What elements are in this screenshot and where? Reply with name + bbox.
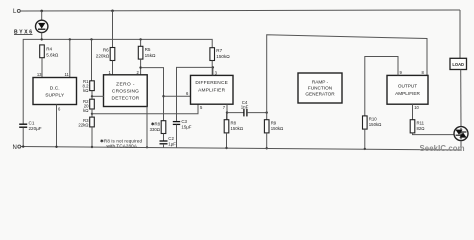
wire C4 node up and across to output pin 8 — [267, 35, 427, 113]
resistor R7 150k — [210, 48, 230, 76]
svg-text:R7: R7 — [216, 48, 222, 53]
wire R1 to R2 — [91, 91, 93, 100]
node R5 / wire to pin6 branch — [139, 66, 141, 68]
svg-text:SeekIC.com: SeekIC.com — [420, 144, 465, 153]
svg-text:11: 11 — [64, 72, 69, 77]
svg-text:150kΩ: 150kΩ — [271, 126, 284, 131]
svg-text:DETECTOR: DETECTOR — [112, 96, 140, 102]
svg-text:220kΩ: 220kΩ — [96, 53, 110, 58]
wire R11 to triac gate — [413, 133, 455, 135]
svg-text:1nF: 1nF — [241, 105, 249, 110]
wire R8s to C2 — [163, 134, 165, 141]
box U3 DIFFERENCE AMPLIFIER — [191, 75, 234, 104]
pin 7 + wire down — [226, 104, 228, 120]
pin 10 wire — [412, 104, 414, 120]
wire pin7 node through C4 to R9 node — [227, 112, 244, 114]
resistor R1 8.2k — [83, 79, 95, 93]
svg-text:C2: C2 — [168, 136, 174, 141]
resistor R3 22k — [78, 117, 94, 128]
node C4/R9/feedback — [266, 111, 268, 113]
node top rail / diode junction — [40, 10, 43, 13]
wire diode to bus — [41, 33, 43, 40]
svg-text:150kΩ: 150kΩ — [369, 122, 382, 127]
svg-text:R4: R4 — [46, 46, 52, 51]
svg-text:22kΩ: 22kΩ — [78, 123, 89, 128]
wire ZCD ground to bottom rail — [146, 107, 148, 148]
svg-text:kΩ: kΩ — [83, 88, 89, 93]
svg-text:with TCA280A: with TCA280A — [107, 144, 137, 149]
resistor R11 82 — [410, 120, 425, 133]
svg-text:330Ω: 330Ω — [150, 127, 161, 132]
svg-text:SUPPLY: SUPPLY — [45, 92, 65, 98]
svg-text:N: N — [13, 145, 17, 151]
resistor R5 15k — [138, 39, 156, 74]
wire R3 to rail — [91, 127, 93, 147]
capacitor C4 1nF — [241, 100, 249, 117]
node pin7/C4/R8 — [226, 111, 228, 113]
svg-text:D.C.: D.C. — [50, 86, 60, 92]
box U5 OUTPUT AMPLIFIER — [387, 75, 428, 104]
wire R7 node to C3 branch — [177, 67, 213, 121]
diode D1 BYX6 — [14, 20, 48, 35]
node R7 / C3 branch — [212, 66, 214, 68]
wire R2-R3 node to diff amp pin 5 — [93, 104, 198, 114]
svg-text:150kΩ: 150kΩ — [216, 54, 230, 59]
wire right rail top — [459, 10, 461, 58]
wire rail to diode — [41, 11, 43, 20]
pin 6 + wire to rail — [56, 105, 58, 148]
wire top rail — [20, 10, 460, 11]
svg-text:kΩ: kΩ — [83, 108, 89, 113]
node bus/diode/R4 — [41, 38, 43, 40]
resistor R4 5.6k — [40, 45, 59, 58]
svg-text:FUNCTION: FUNCTION — [308, 86, 332, 91]
svg-text:AMPLIFIER: AMPLIFIER — [395, 91, 420, 96]
svg-text:✱R8: ✱R8 — [151, 122, 161, 127]
svg-text:OUTPUT: OUTPUT — [398, 84, 417, 89]
node top rail / R6 junction — [111, 10, 114, 13]
resistor R8 150k — [224, 113, 244, 150]
box LOAD — [450, 58, 467, 69]
pin 9 wire and R10 branch — [365, 57, 398, 116]
node bus/pin11 — [69, 38, 71, 40]
box U4 RAMP-FUNCTION GENERATOR — [298, 73, 342, 103]
wire dc bus — [23, 39, 212, 124]
node bus/R5 — [139, 38, 141, 40]
svg-text:82Ω: 82Ω — [417, 126, 426, 131]
wire to diff amp pin 6 — [164, 95, 191, 97]
svg-text:10: 10 — [414, 105, 419, 110]
svg-text:R9: R9 — [271, 120, 277, 125]
svg-text:150kΩ: 150kΩ — [231, 126, 244, 131]
svg-text:RAMP -: RAMP - — [312, 80, 329, 85]
node pin6/rail — [55, 146, 57, 148]
svg-text:ZERO -: ZERO - — [116, 81, 135, 87]
svg-text:R5: R5 — [145, 47, 151, 52]
resistor R9 150k — [264, 113, 284, 150]
svg-text:C3: C3 — [181, 119, 187, 124]
svg-text:5.6kΩ: 5.6kΩ — [46, 52, 59, 57]
svg-text:13: 13 — [37, 72, 42, 77]
wire triac to bottom rail — [460, 141, 462, 150]
node R1/R2 — [91, 95, 93, 97]
node bus/R1 — [90, 38, 92, 40]
node R2/R3 — [91, 113, 93, 115]
svg-text:CROSSING: CROSSING — [112, 88, 139, 94]
wire R4 to pin13 — [41, 58, 43, 78]
svg-text:GENERATOR: GENERATOR — [305, 92, 335, 97]
svg-text:LOAD: LOAD — [452, 62, 464, 67]
node R8 branch / pin6 wire — [162, 95, 164, 97]
wire R1 chain junction to ZCD — [92, 95, 104, 97]
capacitor C1 220uF — [19, 121, 42, 147]
svg-text:R11: R11 — [417, 120, 425, 125]
svg-text:15kΩ: 15kΩ — [145, 53, 156, 58]
wire bus to pin11 — [69, 39, 71, 77]
resistor R8s 330 (starred) — [150, 121, 166, 134]
svg-text:C1: C1 — [29, 121, 35, 126]
svg-text:R6: R6 — [103, 48, 109, 53]
svg-text:220µF: 220µF — [29, 126, 42, 131]
resistor R6 220k + wire from rail — [96, 11, 115, 75]
wire load to triac — [460, 70, 462, 127]
pin 3 — [212, 67, 214, 75]
svg-text:AMPLIFIER: AMPLIFIER — [198, 87, 225, 93]
capacitor C3 15uF — [173, 119, 192, 148]
svg-text:15µF: 15µF — [181, 125, 191, 130]
svg-text:DIFFERENCE: DIFFERENCE — [195, 80, 228, 86]
resistor R10 150k — [363, 116, 383, 150]
svg-text:R8: R8 — [231, 120, 237, 125]
wire R5 node to R8-C2 branch and diff pin 6 — [141, 68, 163, 121]
triac Q1 — [454, 127, 468, 141]
resistor R2 20k — [83, 99, 94, 113]
box U2 ZERO-CROSSING DETECTOR — [104, 75, 148, 107]
wire R2 to R3 — [91, 109, 93, 117]
capacitor C2 1uF — [160, 136, 177, 148]
wire bus to R1 — [91, 39, 93, 80]
node C1/rail — [22, 145, 24, 147]
box U1 D.C. SUPPLY — [33, 78, 77, 105]
wire bottom rail — [21, 147, 461, 151]
node R3/rail — [91, 146, 93, 148]
svg-text:R10: R10 — [369, 117, 377, 122]
svg-text:1µF: 1µF — [168, 141, 176, 146]
